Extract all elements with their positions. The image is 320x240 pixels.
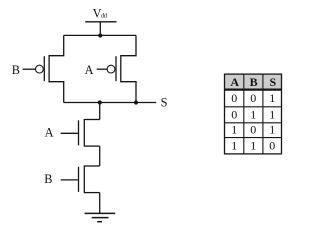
transistor Q1 PMOS B: gate lead (23, 68, 36, 70)
transistor Q2 PMOS A: bubble (107, 65, 115, 73)
node junction dot output right (134, 100, 138, 104)
wire output rail to S (64, 102, 157, 104)
transistor Q1 PMOS B: source lead (49, 35, 64, 55)
transistor Q3 NMOS A: channel (83, 119, 85, 147)
ground bar 2 (92, 217, 109, 219)
node junction dot at Vdd rail (98, 33, 102, 37)
wire node to NMOS chain (99, 103, 101, 120)
ground bar 3 (97, 221, 102, 223)
transistor Q4 NMOS B: drain lead (84, 165, 99, 167)
transistor Q2 PMOS A: drain lead (121, 82, 136, 103)
truth table row line 1 (224, 106, 282, 108)
truth table outer border (225, 74, 282, 154)
svg-text:1: 1 (231, 123, 237, 137)
svg-text:A: A (85, 63, 94, 77)
svg-text:0: 0 (250, 91, 256, 105)
truth table data (231, 91, 275, 152)
Vdd power bar (85, 21, 116, 23)
svg-text:0: 0 (231, 107, 237, 121)
transistor Q4 NMOS B: gate plate (78, 167, 80, 192)
transistor Q3 NMOS A: gate lead (61, 132, 78, 134)
svg-text:dd: dd (101, 13, 108, 20)
transistor Q3 NMOS A: source lead (84, 145, 99, 147)
truth table header text (230, 75, 276, 89)
wire between NMOS A and NMOS B (99, 146, 101, 166)
wire Vdd stub (99, 22, 101, 36)
transistor Q1 PMOS B: drain lead (49, 82, 64, 103)
node junction dot output left (98, 100, 102, 104)
svg-text:S: S (161, 95, 168, 109)
svg-text:1: 1 (250, 107, 256, 121)
transistor Q2 PMOS A: gate lead (97, 68, 108, 70)
wire top rail (64, 34, 136, 36)
truth table column line 1 (243, 74, 245, 154)
svg-text:1: 1 (250, 138, 256, 152)
transistor Q1 PMOS B: gate plate (43, 56, 45, 81)
svg-text:A: A (45, 126, 54, 140)
transistor Q1 PMOS B: channel (48, 55, 50, 82)
transistor Q3 NMOS A: gate plate (78, 120, 80, 145)
svg-text:0: 0 (250, 123, 256, 137)
svg-text:B: B (250, 75, 258, 89)
svg-text:B: B (44, 172, 52, 186)
svg-text:1: 1 (269, 123, 275, 137)
transistor Q2 PMOS A: source lead (121, 35, 136, 55)
svg-text:1: 1 (231, 138, 237, 152)
svg-text:B: B (12, 63, 20, 77)
transistor Q2 PMOS A: channel (120, 55, 122, 82)
svg-text:0: 0 (269, 138, 275, 152)
transistor Q1 PMOS B: bubble (36, 65, 44, 73)
truth table column line 2 (262, 74, 264, 154)
transistor Q2 PMOS A: gate plate (115, 56, 117, 81)
transistor Q4 NMOS B: source lead (84, 192, 99, 194)
svg-text:A: A (230, 75, 239, 89)
svg-text:1: 1 (269, 91, 275, 105)
svg-text:1: 1 (269, 107, 275, 121)
truth table header separator (thick) (224, 88, 282, 90)
transistor Q4 NMOS B: gate lead (61, 179, 78, 181)
svg-text:S: S (269, 75, 276, 89)
wire NMOS B to ground (99, 193, 101, 214)
svg-text:0: 0 (231, 91, 237, 105)
ground bar 1 (85, 212, 116, 214)
truth table header background (225, 74, 282, 89)
truth table row line 2 (224, 122, 282, 124)
transistor Q3 NMOS A: drain lead (84, 119, 99, 121)
truth table row line 3 (224, 137, 282, 139)
transistor Q4 NMOS B: channel (83, 166, 85, 194)
